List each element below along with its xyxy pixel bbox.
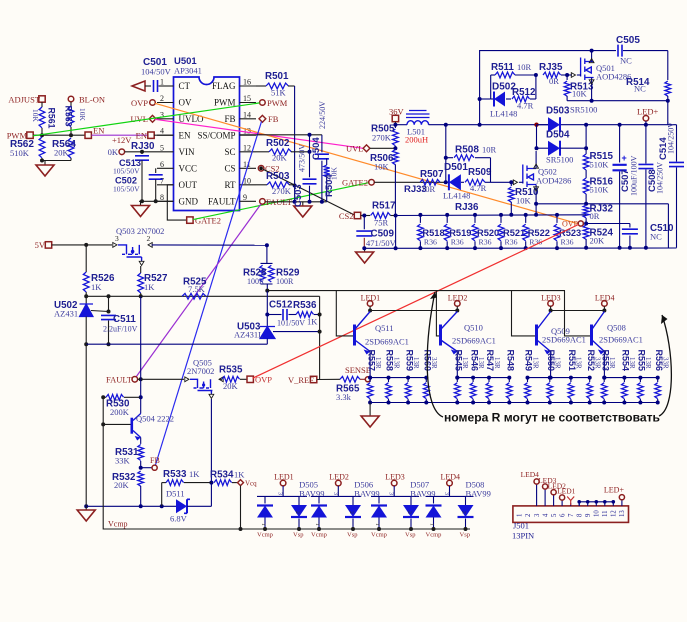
- svg-text:20K: 20K: [223, 381, 239, 391]
- svg-text:Vcmp: Vcmp: [311, 532, 327, 539]
- capacitor C504: [321, 135, 323, 153]
- svg-text:R36: R36: [479, 238, 492, 247]
- wire network bottom rail: [370, 402, 658, 404]
- svg-text:Vcq: Vcq: [245, 480, 257, 488]
- wire VREF vertical: [319, 296, 321, 379]
- svg-text:R512: R512: [512, 87, 536, 98]
- port Vcq: [238, 480, 244, 486]
- svg-text:VIN: VIN: [179, 147, 195, 157]
- svg-text:4: 4: [542, 513, 549, 517]
- svg-text:2: 2: [160, 94, 164, 103]
- port LED+: [643, 116, 649, 122]
- svg-text:R508: R508: [455, 145, 479, 156]
- svg-text:LED1: LED1: [557, 487, 576, 496]
- resistor R506: [393, 150, 399, 165]
- resistor R545: [456, 378, 458, 382]
- svg-text:+: +: [622, 153, 627, 163]
- svg-text:CT: CT: [179, 81, 191, 91]
- svg-text:33R: 33R: [430, 357, 438, 369]
- port +12V RJ30: [112, 135, 132, 145]
- svg-text:5: 5: [551, 513, 558, 517]
- svg-text:2: 2: [348, 511, 354, 514]
- wire GND row pin8: [139, 200, 174, 202]
- svg-text:7: 7: [568, 513, 575, 517]
- svg-text:5: 5: [160, 143, 164, 152]
- port arrow pin1: [132, 81, 145, 91]
- svg-text:51K: 51K: [271, 88, 287, 98]
- port LED2: [455, 301, 461, 307]
- svg-text:3: 3: [332, 492, 338, 495]
- svg-text:3: 3: [277, 492, 283, 495]
- svg-text:100uF/100V: 100uF/100V: [630, 155, 639, 196]
- ground sense network: [369, 403, 371, 417]
- svg-text:Q510: Q510: [464, 323, 483, 333]
- resistor R555: [639, 378, 641, 382]
- svg-text:13PIN: 13PIN: [512, 531, 534, 541]
- svg-text:3: 3: [534, 513, 541, 517]
- svg-text:12: 12: [611, 510, 618, 517]
- svg-text:FAULT: FAULT: [106, 375, 133, 385]
- node FB: [141, 467, 152, 469]
- port GATE2 left: [187, 217, 193, 223]
- label Vcmp/Vsp D507: [371, 532, 387, 539]
- svg-text:LED+: LED+: [604, 486, 625, 495]
- svg-text:BAV99: BAV99: [410, 489, 435, 499]
- resistor R507: [420, 179, 440, 185]
- svg-text:AZ431: AZ431: [54, 309, 78, 319]
- svg-text:J501: J501: [513, 521, 529, 531]
- wire rail LED3: [528, 377, 590, 379]
- svg-text:6.8V: 6.8V: [170, 514, 188, 524]
- wire FAULT row: [138, 378, 184, 380]
- port OVP right: [562, 220, 579, 229]
- svg-text:Vsp: Vsp: [293, 532, 303, 539]
- svg-text:LL4148: LL4148: [490, 109, 517, 119]
- svg-text:BAV99: BAV99: [354, 489, 379, 499]
- svg-text:LED1: LED1: [361, 294, 381, 303]
- resistor RJ32: [583, 205, 589, 218]
- ground U501: [140, 201, 142, 205]
- wire C-cluster bottom bus: [265, 201, 326, 203]
- svg-text:BAV99: BAV99: [466, 489, 491, 499]
- port LED1: [367, 301, 373, 307]
- svg-text:номера R могут не соответствов: номера R могут не соответствовать: [444, 411, 660, 425]
- svg-text:13R: 13R: [392, 357, 400, 369]
- svg-text:10R: 10R: [482, 145, 497, 155]
- svg-text:OV: OV: [179, 98, 192, 108]
- svg-text:15: 15: [243, 94, 251, 103]
- resistor R548: [508, 378, 510, 382]
- shunt regulator U503 AZ431L: [260, 327, 275, 339]
- svg-text:33K: 33K: [115, 456, 131, 466]
- resistor R502: [256, 151, 269, 153]
- highlight FAULT net purple: [136, 204, 261, 377]
- svg-text:104/250V: 104/250V: [667, 122, 676, 154]
- resistor R546: [472, 378, 474, 382]
- svg-text:2: 2: [461, 511, 467, 514]
- resistor R516: [583, 178, 589, 194]
- capacitor C511: [108, 296, 110, 311]
- wire LED1-LED2 link: [370, 310, 457, 312]
- connector J501 pin numbers: [517, 514, 524, 517]
- wire U502 anode line: [86, 343, 267, 345]
- resistor R503: [256, 184, 267, 186]
- wire OUT pin7 to GATE2: [167, 185, 186, 220]
- svg-text:EN: EN: [136, 130, 147, 140]
- wire EN to pin4: [154, 134, 174, 136]
- transistor Q505 2N7002: [193, 358, 212, 368]
- highlight OVP red: [253, 225, 579, 379]
- wire Q501 drain: [591, 51, 593, 62]
- svg-text:100R: 100R: [247, 277, 265, 286]
- svg-text:200K: 200K: [110, 407, 130, 417]
- resistor R523: [556, 215, 558, 223]
- svg-text:473/50V: 473/50V: [298, 144, 307, 172]
- svg-text:OUT: OUT: [179, 180, 198, 190]
- wire Q508 emitter: [603, 352, 605, 378]
- wire LED3 stub: [550, 306, 552, 310]
- svg-text:LED+: LED+: [637, 107, 659, 117]
- wire box vertical LED3: [512, 291, 536, 336]
- svg-text:LL4148: LL4148: [443, 191, 470, 201]
- resistor R505: [394, 125, 396, 128]
- wire Q503 drain to R528: [152, 244, 267, 246]
- resistor R563: [70, 102, 72, 106]
- svg-text:R511: R511: [491, 62, 514, 73]
- resistor R508: [446, 157, 453, 159]
- diode pair D507 BAV99: [393, 486, 395, 497]
- wire LED4 stub: [603, 306, 605, 310]
- port OVP mid: [247, 376, 253, 382]
- svg-text:6: 6: [559, 513, 566, 517]
- capacitor C514: [676, 125, 678, 162]
- wire GATE2 row: [374, 181, 445, 183]
- wire Vcmp line: [103, 424, 470, 529]
- transistor Q503 2N7002: [116, 226, 164, 236]
- wire R530 base column: [102, 397, 104, 424]
- svg-text:10: 10: [594, 510, 601, 517]
- svg-text:D511: D511: [166, 489, 185, 499]
- resistor R551: [570, 378, 572, 382]
- transistor Q504 2222: [103, 423, 131, 425]
- highlight CS2 net black: [263, 169, 355, 215]
- wire rail LED1: [370, 377, 426, 379]
- resistor R533: [161, 483, 163, 507]
- svg-text:Vcmp: Vcmp: [371, 532, 387, 539]
- resistor R547: [488, 378, 490, 382]
- svg-text:R561: R561: [47, 108, 57, 129]
- svg-text:5V: 5V: [35, 240, 46, 250]
- wire Q509 emitter: [550, 352, 552, 378]
- svg-text:Q503 2N7002: Q503 2N7002: [116, 226, 164, 236]
- svg-text:SS/COMP: SS/COMP: [197, 130, 235, 140]
- svg-text:AOD4286: AOD4286: [536, 176, 571, 186]
- resistor R532: [138, 471, 144, 486]
- wire main rail: [446, 124, 677, 126]
- resistor R565: [340, 376, 360, 382]
- wire LED2 stub: [456, 306, 458, 310]
- capacitor C508: [645, 125, 647, 164]
- transistor Q511 2SD669AC1: [353, 325, 356, 346]
- wire rail LED2: [457, 377, 509, 379]
- svg-text:OVP: OVP: [131, 98, 148, 108]
- svg-text:D501: D501: [444, 162, 468, 173]
- capacitor C509: [363, 216, 365, 230]
- svg-text:2: 2: [406, 511, 412, 514]
- svg-text:R536: R536: [293, 300, 317, 311]
- wire bottom left rail: [86, 505, 176, 507]
- U501 right pin names: [212, 81, 236, 91]
- svg-text:10K: 10K: [374, 162, 390, 172]
- svg-text:20K: 20K: [272, 153, 288, 163]
- label Vcmp/Vsp D505: [257, 532, 273, 539]
- svg-text:NC: NC: [634, 84, 646, 94]
- U501 left pin numbers: [160, 78, 164, 87]
- resistor R535: [219, 378, 222, 380]
- svg-text:C504: C504: [311, 137, 322, 160]
- port LED3 lower: [391, 480, 397, 486]
- connector J501 body: [513, 506, 629, 523]
- highlight OVP net orange: [155, 103, 577, 223]
- svg-text:BAV99: BAV99: [299, 489, 324, 499]
- svg-text:0K: 0K: [108, 147, 119, 157]
- diode D501: [446, 181, 449, 183]
- wire 36V to rail: [394, 122, 396, 125]
- wire Q502 source: [535, 185, 537, 204]
- svg-text:Vsp: Vsp: [460, 532, 470, 539]
- annotation right arrow: [659, 315, 671, 416]
- svg-text:ADJUST: ADJUST: [8, 95, 40, 105]
- svg-text:AP3041: AP3041: [174, 66, 202, 76]
- svg-text:1: 1: [374, 523, 380, 526]
- svg-text:D504: D504: [546, 130, 570, 141]
- diode pair D508 BAV99: [449, 486, 451, 497]
- resistor R556: [657, 378, 659, 382]
- svg-text:101/50V: 101/50V: [277, 319, 305, 328]
- svg-text:UVL: UVL: [346, 144, 363, 154]
- svg-text:4.7R: 4.7R: [517, 101, 534, 111]
- svg-text:1: 1: [160, 78, 164, 87]
- wire R527-FAULT vertical: [140, 296, 142, 379]
- wire Vcq down: [240, 486, 242, 529]
- pin7 NC mark: [570, 503, 572, 506]
- svg-text:7: 7: [160, 176, 164, 185]
- wire gate Q502: [491, 181, 514, 183]
- wire Q511 emitter: [369, 352, 371, 378]
- svg-text:1K: 1K: [91, 282, 102, 292]
- svg-text:LED3: LED3: [541, 294, 561, 303]
- svg-text:10K: 10K: [516, 196, 532, 206]
- resistor R509: [465, 179, 485, 185]
- capacitor C505: [618, 45, 622, 57]
- wire rail LED4: [604, 377, 658, 379]
- svg-text:6: 6: [160, 160, 164, 169]
- resistor R515: [585, 125, 587, 154]
- svg-text:1: 1: [314, 523, 320, 526]
- transistor Q508 2SD669AC1: [590, 325, 593, 346]
- svg-text:1: 1: [260, 523, 266, 526]
- svg-text:270K: 270K: [272, 186, 292, 196]
- svg-text:104/250V: 104/250V: [656, 162, 665, 194]
- capacitor C513: [141, 152, 143, 154]
- svg-text:C511: C511: [113, 314, 136, 325]
- wire SS/COMP top bus: [240, 134, 322, 136]
- wire mid bus corner: [667, 204, 669, 248]
- zener D511: [176, 499, 187, 513]
- svg-text:8: 8: [160, 193, 164, 202]
- svg-text:UVLO: UVLO: [179, 114, 204, 124]
- svg-text:8: 8: [576, 513, 583, 517]
- transistor Q502 AOD4286: [523, 165, 536, 188]
- svg-text:C503: C503: [293, 184, 304, 207]
- svg-text:R507: R507: [420, 169, 444, 180]
- svg-text:1K: 1K: [189, 469, 200, 479]
- svg-text:SR5100: SR5100: [546, 155, 573, 165]
- port BL-ON: [68, 96, 74, 102]
- resistor R526: [85, 245, 87, 272]
- svg-text:1: 1: [517, 514, 524, 517]
- wire FAULT vertical: [140, 379, 142, 397]
- wire mid bus: [536, 203, 668, 205]
- wire VREF to sense: [317, 378, 340, 380]
- ground divider: [44, 161, 46, 166]
- port 36V: [389, 107, 405, 117]
- svg-text:13R: 13R: [575, 357, 583, 369]
- svg-text:LED2: LED2: [448, 294, 468, 303]
- resistor R513: [566, 75, 568, 80]
- svg-text:2: 2: [525, 513, 532, 517]
- svg-text:2SD669AC1: 2SD669AC1: [599, 335, 643, 345]
- port GATE2 right: [342, 178, 368, 188]
- resistor R525: [182, 293, 206, 299]
- svg-text:2N7002: 2N7002: [187, 366, 214, 376]
- svg-text:C512: C512: [269, 300, 293, 311]
- svg-text:D503: D503: [546, 106, 570, 117]
- port LED1 lower: [280, 480, 286, 486]
- wire CS2 to R517: [361, 215, 370, 217]
- svg-text:LED4: LED4: [521, 470, 540, 479]
- svg-text:13R: 13R: [374, 357, 382, 369]
- svg-text:R509: R509: [468, 167, 492, 178]
- wire line B bus: [267, 290, 565, 292]
- svg-text:10K: 10K: [330, 167, 339, 181]
- svg-text:13: 13: [619, 510, 626, 517]
- svg-text:3: 3: [115, 234, 119, 243]
- svg-text:3: 3: [160, 110, 164, 119]
- diode pair D506 BAV99: [337, 486, 339, 497]
- port FB pin14: [259, 115, 266, 122]
- resistor R564: [68, 138, 74, 158]
- svg-text:LED3: LED3: [385, 473, 405, 482]
- resistor R557: [369, 378, 371, 382]
- svg-text:20K: 20K: [114, 480, 130, 490]
- wire R513 R514 bottom link: [567, 100, 668, 102]
- svg-text:4.7R: 4.7R: [470, 183, 487, 193]
- svg-text:+12V: +12V: [112, 135, 132, 145]
- resistor R549: [527, 378, 529, 382]
- svg-text:13R: 13R: [412, 357, 420, 369]
- svg-text:SC: SC: [224, 147, 235, 157]
- label Vcmp/Vsp D508: [426, 532, 442, 539]
- svg-text:Q508: Q508: [607, 323, 626, 333]
- transistor Q510 2SD669AC1: [439, 325, 442, 346]
- svg-text:OVP: OVP: [562, 220, 579, 229]
- resistor R560: [425, 378, 427, 382]
- wire R508-R509 loop: [490, 158, 492, 183]
- wire vertical rail to D501 node: [445, 125, 447, 183]
- port LED1 J501: [561, 500, 563, 506]
- highlight GATE2 net green: [193, 183, 368, 220]
- resistor R504: [326, 159, 328, 166]
- svg-text:FLAG: FLAG: [212, 81, 236, 91]
- U501 left pin stubs: [157, 102, 174, 104]
- wire Q502 drain: [535, 151, 537, 169]
- wire line A: [86, 295, 319, 297]
- port PWM pin15: [260, 100, 266, 106]
- svg-text:10R: 10R: [421, 184, 436, 194]
- svg-text:1K: 1K: [307, 317, 318, 327]
- resistor R522: [525, 215, 527, 223]
- wire R565 to node: [360, 378, 365, 380]
- svg-text:PWM: PWM: [214, 98, 236, 108]
- svg-text:33R: 33R: [662, 357, 670, 369]
- port PWM: [27, 132, 33, 138]
- transistor Q509 2SD669AC1: [535, 325, 538, 346]
- svg-text:2SD669AC1: 2SD669AC1: [452, 336, 496, 346]
- svg-text:3: 3: [388, 492, 394, 495]
- svg-text:510K: 510K: [10, 148, 30, 158]
- wire R528 column: [266, 245, 268, 263]
- wire divider gnd: [42, 160, 71, 162]
- svg-text:14: 14: [243, 110, 251, 119]
- svg-text:13R: 13R: [493, 357, 501, 369]
- resistor R512: [512, 96, 530, 102]
- svg-text:4: 4: [160, 127, 164, 136]
- resistor R510: [510, 182, 512, 186]
- resistor R514: [667, 51, 669, 80]
- U501 left pin names: [179, 81, 191, 91]
- wire C512 column: [266, 291, 268, 327]
- svg-text:R535: R535: [219, 365, 243, 376]
- port EN pin4: [148, 132, 154, 138]
- port FAULT pin9: [260, 199, 266, 205]
- svg-text:VCC: VCC: [179, 164, 198, 174]
- resistor R528: [261, 263, 273, 284]
- diode D502: [491, 98, 494, 100]
- svg-text:3: 3: [443, 492, 449, 495]
- svg-text:R502: R502: [266, 138, 290, 149]
- svg-text:2: 2: [294, 511, 300, 514]
- capacitor C502: [155, 168, 157, 173]
- node CS2 pin11: [258, 166, 264, 172]
- highlight UVLO net magenta: [155, 119, 363, 148]
- port LED4: [602, 301, 608, 307]
- wire box vertical LED4: [565, 291, 591, 336]
- svg-text:R36: R36: [451, 238, 464, 247]
- wire RJ36 top bus: [396, 214, 586, 217]
- svg-text:13R: 13R: [628, 357, 636, 369]
- U501 right pin stubs: [240, 85, 257, 87]
- svg-text:12: 12: [243, 143, 251, 152]
- node SENSE: [365, 377, 370, 382]
- svg-text:105/50V: 105/50V: [113, 167, 140, 176]
- svg-text:LED4: LED4: [595, 294, 615, 303]
- svg-text:Q511: Q511: [375, 323, 394, 333]
- svg-text:BL-ON: BL-ON: [79, 95, 105, 105]
- resistor R561: [41, 102, 43, 107]
- svg-text:13R: 13R: [608, 357, 616, 369]
- wire R506 to bottom bus: [395, 216, 397, 249]
